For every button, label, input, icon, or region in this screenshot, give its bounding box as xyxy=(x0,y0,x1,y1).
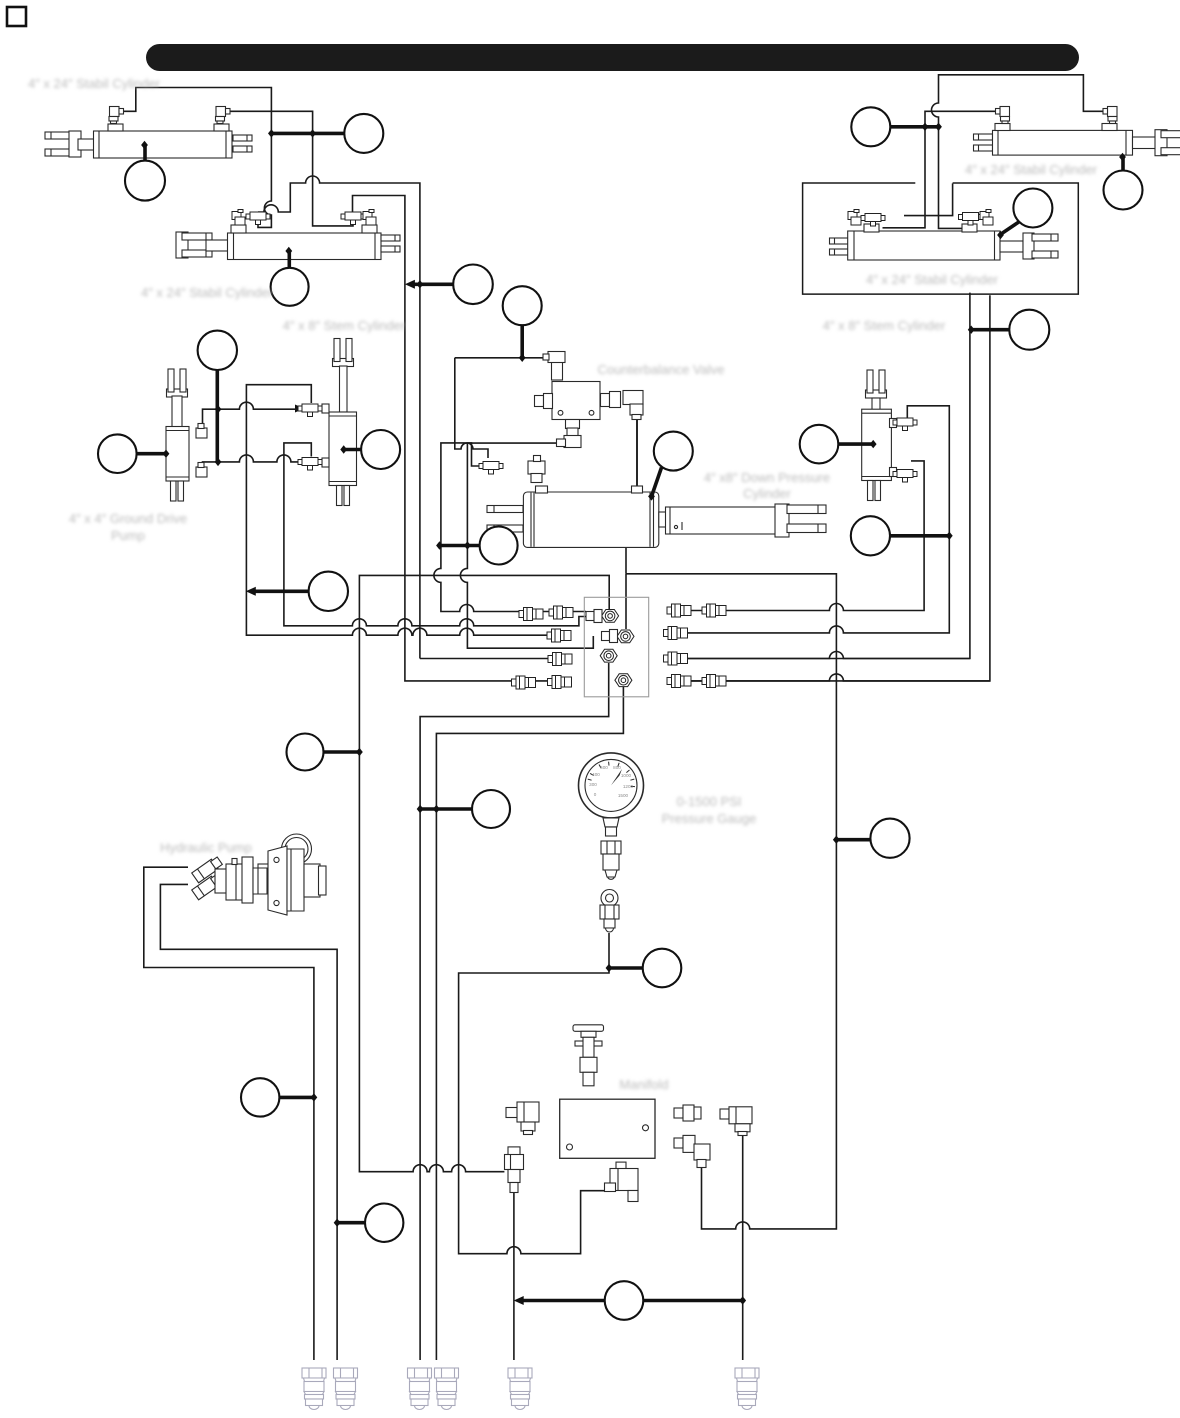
wire: manifold row 3 right run xyxy=(683,652,970,659)
fitting: mid cylinder tee T2 xyxy=(341,212,365,225)
fitting: manifold port 2 nipple xyxy=(602,630,618,643)
svg-text:800: 800 xyxy=(613,765,621,770)
fitting: counterbalance bottom fitting xyxy=(557,420,582,448)
callout: item gauge hose xyxy=(606,949,682,988)
wire: stem cylinder upper T to manifold row 2 left xyxy=(246,385,549,636)
wire: ground drive to stem cylinder upper xyxy=(218,402,300,409)
callout: item ground drive top xyxy=(198,331,237,467)
coupler: quick disconnect 2 xyxy=(334,1368,358,1410)
fitting: stem cylinder lower tee xyxy=(298,458,322,471)
wire: counterbalance valve to manifold port 2 xyxy=(460,443,593,648)
wire: left stabilizer cylinder port A to mid cylinder T1 xyxy=(122,88,271,228)
pump: hydraulic pump assembly xyxy=(192,834,326,915)
fitting: manifold right row2 xyxy=(664,627,688,640)
gauge: pressure 0-1500 psi xyxy=(579,753,644,836)
svg-text:0: 0 xyxy=(594,792,597,797)
wire: manifold row 2 right to right stem cylinder upper xyxy=(683,406,949,633)
wire: manifold port 2 top entry xyxy=(625,574,627,629)
svg-text:4″ x 24″ Stabil Cylinder: 4″ x 24″ Stabil Cylinder xyxy=(866,272,999,287)
svg-text:1500: 1500 xyxy=(618,793,629,798)
callout: item down pressure cyl xyxy=(648,432,693,501)
fitting: counterbalance right fitting and elbow xyxy=(601,391,644,420)
fitting: bottom manifold left elbow xyxy=(506,1102,539,1135)
callout: item gauge trunk xyxy=(417,790,510,828)
fitting: manifold left row4 a xyxy=(512,676,536,689)
svg-text:Pressure Gauge: Pressure Gauge xyxy=(662,811,757,826)
svg-text:Cylinder: Cylinder xyxy=(743,486,791,501)
wire: down pressure cylinder base to right trunk xyxy=(626,547,836,1229)
fitting: right mid elbow (loose) xyxy=(980,210,993,226)
callout: item right mid cylinder xyxy=(997,189,1052,240)
fitting: manifold left row1 b xyxy=(549,606,573,619)
coupler: quick disconnect 3 xyxy=(408,1368,432,1410)
title header bar xyxy=(146,44,1079,71)
cylinder: left mid stabilizer 4x24 xyxy=(176,225,400,260)
wire: ground drive cyl upper port link xyxy=(203,409,219,429)
callout: item stem cylinder xyxy=(340,430,400,469)
fitting: stem cylinder upper tee xyxy=(298,404,322,417)
wire: ground drive cyl lower port link xyxy=(203,462,219,468)
fitting: manifold left row2 xyxy=(547,629,571,642)
fitting: bottom manifold bottom elbow xyxy=(605,1162,639,1201)
wire: manifold port 4 to coupler 4 xyxy=(436,687,623,1360)
arrow: hose end marker xyxy=(295,405,304,413)
cylinder: down pressure rod xyxy=(659,504,826,537)
manifold port 3 hex xyxy=(600,649,617,662)
fitting: right stem lower tee xyxy=(893,470,917,483)
text labels (blurred) xyxy=(28,76,1098,1092)
svg-text:0-1500 PSI: 0-1500 PSI xyxy=(676,794,741,809)
callout: item hoses top-right xyxy=(851,107,942,146)
callout: item trunk left xyxy=(287,734,363,771)
callout: item pump hose B xyxy=(334,1204,404,1242)
fitting: manifold left row3 xyxy=(548,653,572,666)
wire: right stabilizer cylinder port A to mid cylinder xyxy=(883,111,1001,228)
fitting: manifold right row4 a xyxy=(667,675,691,688)
callout: item coupler hoses xyxy=(514,1281,746,1320)
svg-text:Pump: Pump xyxy=(111,528,145,543)
wire: manifold port 3 to coupler 3 xyxy=(420,663,609,1360)
fitting: counterbalance left port xyxy=(535,394,553,409)
wire: tee to manifold row 1 left xyxy=(434,443,586,612)
manifold: bottom block xyxy=(560,1099,655,1158)
fitting: mid cylinder tee T1 xyxy=(246,212,270,225)
coupler: quick disconnect 6 xyxy=(735,1368,759,1410)
fitting: right stabilizer elbow B xyxy=(1103,107,1117,124)
wire: manifold row 3 right riser xyxy=(683,293,970,659)
valve: breather plug xyxy=(573,1025,604,1086)
svg-text:Manifold: Manifold xyxy=(619,1077,668,1092)
svg-text:1200: 1200 xyxy=(623,784,634,789)
valve: counterbalance xyxy=(552,382,600,420)
manifold port 4 hex xyxy=(615,674,632,687)
gauge dial numbers xyxy=(589,765,633,798)
callout: item hoses top-left xyxy=(268,114,383,153)
svg-text:300: 300 xyxy=(589,782,597,787)
fitting: manifold right row3 xyxy=(664,652,688,665)
wire: manifold row 3 left run xyxy=(420,658,560,660)
wire: pump outlet A to coupler 1 xyxy=(144,867,314,1360)
fitting: manifold right row1 b xyxy=(702,604,726,617)
callout: item right stem left xyxy=(800,425,877,464)
fitting: down pressure left port elbow xyxy=(528,456,545,483)
svg-text:4″ x 24″ Stabil Cylinder: 4″ x 24″ Stabil Cylinder xyxy=(28,76,161,91)
callout: item ground drive left xyxy=(98,434,169,473)
fitting: counterbalance top elbow xyxy=(543,352,565,381)
fitting: left stabilizer elbow A xyxy=(109,107,124,124)
fitting: bottom manifold lower right xyxy=(674,1135,710,1167)
wire: ground drive to stem cylinder lower xyxy=(218,455,304,462)
svg-text:400: 400 xyxy=(592,772,600,777)
wire: counterbalance valve top feed xyxy=(455,357,548,359)
fitting: right mid tee T2r xyxy=(861,214,885,227)
wire: box corner jog xyxy=(904,183,953,215)
wire: pump outlet B to coupler 2 xyxy=(160,884,337,1360)
callout: item trunk hoses xyxy=(405,265,493,305)
wire: mid cylinder T1 to manifold row 3 left xyxy=(258,176,420,659)
fitting: down pressure feed tee xyxy=(479,462,503,475)
wire: manifold row 1 right to right stem cylinder lower xyxy=(683,461,924,611)
svg-text:4″ x 8″ Stem Cylinder: 4″ x 8″ Stem Cylinder xyxy=(283,318,406,333)
wire: left stabilizer cylinder port B to mid cylinder T2 xyxy=(229,111,354,226)
fitting: right stem upper tee xyxy=(893,418,917,431)
fitting: bottom manifold right elbow xyxy=(720,1107,752,1136)
cylinder: right stem 4x8 xyxy=(862,370,897,501)
fitting: manifold left row1 a xyxy=(519,608,543,621)
wire: mid cylinder T2 to manifold row 4 left xyxy=(353,196,561,681)
enclosure box right group xyxy=(803,183,1079,294)
fitting: gauge adapter xyxy=(601,841,621,879)
svg-text:4″ x 24″ Stabil Cylinder: 4″ x 24″ Stabil Cylinder xyxy=(141,285,274,300)
manifold: center block xyxy=(584,597,648,697)
fitting: right mid tee T1r xyxy=(959,213,983,226)
callout: item right stabilizer xyxy=(1104,153,1143,210)
wire: right stabilizer cylinder port B to mid cylinder xyxy=(932,75,1108,229)
svg-text:1000: 1000 xyxy=(621,773,632,778)
callout: item hose lower xyxy=(246,572,348,611)
fitting: manifold left row4 b xyxy=(548,676,572,689)
cylinder: left stem 4x8 xyxy=(322,339,357,506)
coupler: quick disconnect 5 xyxy=(508,1368,532,1410)
svg-text:Hydraulic Pump: Hydraulic Pump xyxy=(160,840,252,855)
svg-text:600: 600 xyxy=(600,765,608,770)
svg-text:4″ x 24″ Stabil Cylinder: 4″ x 24″ Stabil Cylinder xyxy=(965,162,1098,177)
callout: item left mid cylinder xyxy=(271,247,309,306)
coupler: quick disconnect 4 xyxy=(435,1368,459,1410)
svg-text:4″ x 4″ Ground Drive: 4″ x 4″ Ground Drive xyxy=(69,511,187,526)
cylinder: right mid stabilizer 4x24 xyxy=(830,224,1059,260)
fitting: right stabilizer elbow A xyxy=(996,107,1010,124)
wire: stem cylinder lower T to manifold port 1 xyxy=(284,443,586,626)
fitting: mid cylinder elbow (loose) xyxy=(363,210,376,226)
fitting: left stabilizer elbow B xyxy=(216,107,231,124)
callout: item left stabilizer xyxy=(125,141,165,201)
svg-text:Counterbalance Valve: Counterbalance Valve xyxy=(598,362,725,377)
manifold port 1 hex xyxy=(602,610,619,623)
coupler: quick disconnect 1 xyxy=(302,1368,326,1410)
fitting: bottom manifold right straight xyxy=(674,1105,701,1121)
manifold port 2 hex xyxy=(617,630,634,643)
checkbox top-left corner xyxy=(7,7,26,26)
callout: item pump hose A xyxy=(241,1078,317,1116)
wire: pressure gauge to bottom manifold xyxy=(459,933,609,1254)
callout: item hose pair mid xyxy=(436,527,517,565)
fitting: manifold port 1 nipple xyxy=(586,610,602,623)
fitting: manifold right row1 a xyxy=(667,604,691,617)
wire: bottom manifold to coupler 6 xyxy=(742,1135,744,1360)
cylinder: ground drive xyxy=(166,369,189,501)
fitting: mid cylinder elbow (loose) xyxy=(232,210,245,226)
wire: feed down to tee xyxy=(455,358,488,458)
callout: item counterbalance feed xyxy=(503,286,542,362)
cylinder: right stabilizer 4x24 xyxy=(974,124,1180,156)
cylinder: left stabilizer 4x24 xyxy=(45,124,252,158)
wire: manifold row 4 right run xyxy=(690,674,990,681)
fitting: right mid elbow (loose) xyxy=(848,210,861,226)
svg-text:4″ x8″ Down Pressure: 4″ x8″ Down Pressure xyxy=(704,470,830,485)
wire: counterbalance valve to down pressure cylinder port xyxy=(636,420,638,488)
fitting: ground drive upper elbow xyxy=(196,424,207,439)
callout: item right riser hose xyxy=(968,310,1050,350)
wire: manifold row 4 right riser xyxy=(690,295,990,681)
fitting: ground drive lower elbow xyxy=(196,463,207,478)
wire: bottom manifold to coupler 5 xyxy=(513,1193,515,1360)
callout: item return trunk xyxy=(833,819,910,858)
fitting: gauge swivel xyxy=(600,890,619,933)
svg-text:4″ x 8″ Stem Cylinder: 4″ x 8″ Stem Cylinder xyxy=(823,318,946,333)
cylinder: down pressure 4x8 xyxy=(487,486,659,547)
wire: manifold port 1 to bottom manifold xyxy=(359,575,609,1171)
fitting: manifold right row4 b xyxy=(702,675,726,688)
callout: item right stem hose xyxy=(851,516,953,555)
fitting: bottom manifold tee down xyxy=(505,1147,524,1193)
